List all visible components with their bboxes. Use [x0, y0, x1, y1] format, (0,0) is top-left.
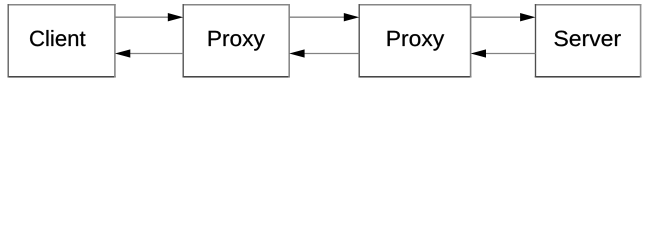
arrow Server to Proxy2 (bottom, left-pointing): [471, 49, 536, 57]
arrow Proxy1 to Client (bottom, left-pointing): [115, 49, 183, 57]
label Server: [555, 31, 621, 47]
arrow Proxy1 to Proxy2 (top, right-pointing): [289, 13, 359, 21]
box Client: [8, 4, 116, 77]
label Client: [30, 30, 85, 46]
label Proxy: [388, 31, 445, 51]
arrow Proxy2 to Proxy1 (bottom, left-pointing): [289, 49, 359, 57]
arrow Client to Proxy1 (top, right-pointing): [115, 13, 183, 21]
arrow Proxy2 to Server (top, right-pointing): [471, 13, 536, 21]
box Proxy1: [183, 4, 291, 77]
box Proxy2: [359, 4, 472, 77]
label Proxy: [209, 31, 265, 51]
box Server: [535, 4, 642, 77]
